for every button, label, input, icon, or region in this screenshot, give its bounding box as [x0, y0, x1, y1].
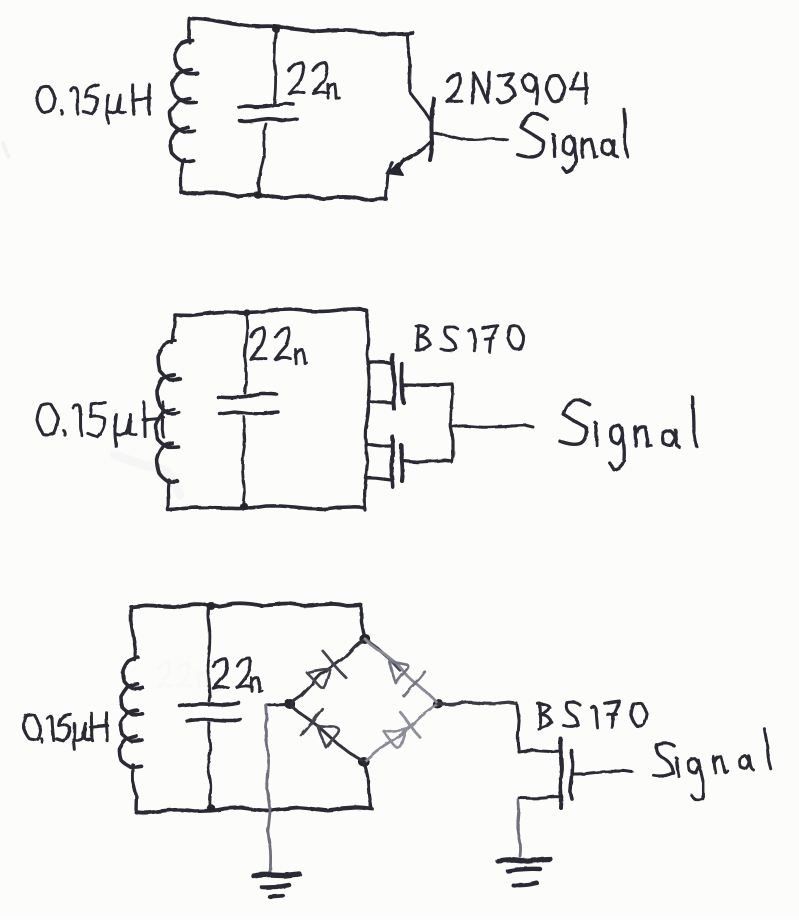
transistor Q1 emitter with arrow [386, 143, 430, 175]
capacitor C1 plates [239, 104, 297, 122]
node cap bottom 3 [207, 804, 215, 812]
capacitor C3 top lead [208, 607, 210, 701]
wire emitter to bottom rail 1 [386, 173, 388, 199]
transistor M3 BS170 gate bar [570, 750, 572, 799]
wire to bridge top [361, 605, 365, 639]
inductor L2 0.15uH [156, 316, 180, 509]
inductor L1 0.15uH [170, 19, 198, 192]
wire bottom rail of tank 2 [168, 506, 365, 510]
wire source stub M2 [366, 478, 391, 480]
faint smudge circuit 1 left [3, 143, 8, 156]
wire top rail of tank 1 [189, 18, 413, 34]
inductor L3 0.15uH [119, 607, 142, 812]
wire source drop M3 [518, 800, 521, 856]
wire drain lead M2 [403, 460, 452, 462]
diode D4 bottom-right arm [364, 704, 438, 762]
transistor M1 BS170 channel bar [402, 364, 404, 402]
label 0.15uH circuit 1 [37, 84, 151, 123]
faint smudge circuit 2 [115, 455, 180, 495]
capacitor C2 bottom lead [243, 417, 245, 507]
wire base lead to signal 1 [432, 133, 508, 140]
transistor M2 BS170 channel bar [401, 445, 403, 481]
node bridge right [432, 699, 443, 709]
wire top rail of tank 2 [175, 309, 366, 315]
label 22n circuit 3 [213, 658, 262, 692]
wire right bus joining drains [451, 384, 454, 462]
diode D2 top-right arm [365, 639, 438, 704]
wire signal line 2 [452, 425, 533, 427]
node bridge top [359, 634, 370, 644]
wire top rail of tank 3 [131, 603, 361, 607]
diode D3 bottom-left arm [290, 704, 364, 762]
capacitor C3 plates [180, 703, 240, 721]
wire source stub M1 [368, 401, 392, 403]
wire collector riser Q1 [407, 34, 430, 120]
wire bridge bottom to rail [364, 762, 371, 808]
wire drain lead M1 [404, 384, 452, 386]
node cap top 1 [272, 25, 280, 32]
ground symbol G2 [498, 859, 550, 885]
wire bridge right to FET drain corner [438, 702, 516, 704]
diode D1 top-left arm [290, 639, 365, 704]
label Signal circuit 1 [518, 109, 628, 172]
capacitor C1 22n lead [274, 30, 276, 103]
capacitor C2 plates [218, 393, 278, 414]
node cap top 2 [243, 309, 251, 316]
capacitor C2 top lead [245, 314, 248, 393]
node cap bottom 1 [254, 191, 262, 199]
wire bridge left to ground line [266, 704, 290, 705]
node bridge left [284, 699, 295, 709]
capacitor C1 bottom lead [259, 124, 266, 191]
transistor M2 BS170 gate bar [391, 436, 393, 487]
node bridge bottom [358, 757, 369, 767]
transistor M3 BS170 channel bar [560, 739, 562, 808]
wire signal lead 3 [574, 771, 632, 774]
faint pencil ghost near C3 cap [159, 662, 210, 688]
wire bottom rail of tank 3 [136, 808, 372, 813]
wire drain lead M3 [519, 751, 560, 752]
wire ground drop circuit 3 [266, 705, 271, 873]
label 2N3904 [448, 72, 588, 103]
transistor Q1 2N3904 base bar [430, 99, 434, 160]
ground symbol G1 [254, 874, 299, 897]
label Signal circuit 2 [560, 397, 697, 469]
transistor M1 BS170 gate bar [393, 355, 396, 409]
wire source lead M3 [519, 797, 561, 799]
wire bottom rail of tank 1 [181, 192, 386, 200]
label 22n circuit 2 [251, 328, 307, 364]
node cap bottom 2 [240, 502, 248, 509]
node cap top 3 [207, 602, 216, 610]
label 22n circuit 1 [289, 62, 340, 99]
wire drain drop M3 [517, 705, 519, 752]
wire right edge tank 2 [365, 310, 370, 510]
wire gate stub top FET [368, 362, 392, 364]
capacitor C3 bottom lead [208, 723, 211, 808]
label BS170 circuit 2 [416, 325, 523, 352]
label 0.15uH circuit 2 [37, 402, 164, 447]
label BS170 circuit 3 [538, 702, 647, 729]
label Signal circuit 3 [654, 729, 772, 800]
wire gate stub bottom FET [367, 444, 391, 446]
label 0.15uH circuit 3 [23, 713, 107, 750]
